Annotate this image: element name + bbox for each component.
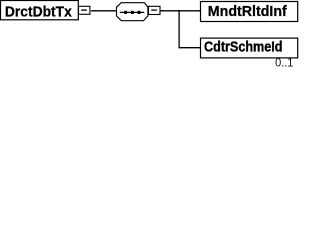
- sequence dot 2: [131, 11, 134, 14]
- expand box (minus) on DrctDbtTx: [79, 6, 90, 14]
- sequence dot 3: [138, 11, 141, 14]
- branch trunk vertical: [178, 10, 180, 48]
- svg-text:0..1: 0..1: [275, 58, 293, 70]
- expand box (minus) on sequence: [149, 6, 161, 14]
- wire DrctDbtTx to sequence: [91, 10, 117, 12]
- element box CdtrSchmeId: [201, 38, 298, 58]
- element box MndtRltdInf: [201, 2, 298, 22]
- wire trunk to CdtrSchmeId: [179, 47, 201, 49]
- wire sequence to branch trunk: [160, 10, 180, 12]
- svg-text:DrctDbtTx: DrctDbtTx: [5, 3, 72, 20]
- sequence dot 1: [124, 11, 127, 14]
- minus sign: [151, 9, 157, 11]
- element box DrctDbtTx: [1, 1, 79, 20]
- wire trunk to MndtRltdInf: [179, 10, 201, 12]
- svg-text:CdtrSchmeId: CdtrSchmeId: [204, 38, 283, 55]
- svg-text:MndtRltdInf: MndtRltdInf: [208, 3, 288, 20]
- sequence compositor octagon: [117, 3, 148, 21]
- minus sign: [81, 9, 87, 11]
- sequence interior line: [120, 11, 145, 13]
